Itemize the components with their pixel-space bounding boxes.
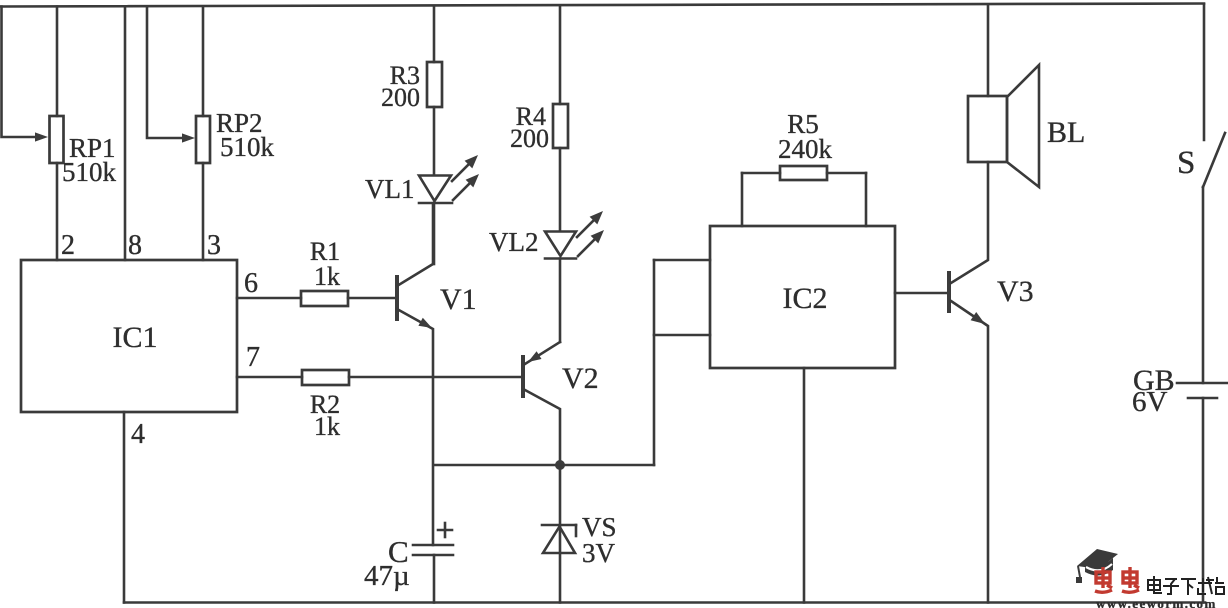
svg-text:2: 2 bbox=[61, 230, 75, 261]
wire top rail to R4 bbox=[559, 7, 562, 105]
VL1 arrow 1 bbox=[452, 161, 472, 181]
V3 collector bbox=[951, 162, 988, 283]
svg-text:47µ: 47µ bbox=[364, 560, 410, 592]
watermark black text dianzi xiazaizhan bbox=[1148, 576, 1224, 595]
RP2 wiper arrowhead bbox=[182, 133, 195, 142]
svg-text:6V: 6V bbox=[1132, 386, 1168, 418]
svg-text:240k: 240k bbox=[778, 134, 833, 164]
speaker BL box bbox=[968, 96, 1007, 162]
IC1 box bbox=[21, 260, 237, 412]
wire switch to battery bbox=[1202, 187, 1205, 383]
R5 wires bbox=[742, 172, 780, 175]
svg-text:V3: V3 bbox=[997, 275, 1034, 308]
wire IC2 to V3 base bbox=[895, 292, 948, 295]
wire RP2 to IC1 pin 3 bbox=[202, 163, 205, 260]
wire top rail to switch bbox=[1203, 4, 1206, 140]
svg-text:200: 200 bbox=[510, 124, 549, 153]
wire IC1 pin 6 to R1 bbox=[237, 297, 301, 300]
svg-text:200: 200 bbox=[381, 83, 420, 112]
top power rail bbox=[0, 4, 1204, 7]
resistor R1 body bbox=[301, 291, 348, 306]
transistor V1 base bar bbox=[395, 275, 399, 321]
wire junction to zener and rail bbox=[559, 465, 562, 603]
wire top rail to RP1 bbox=[56, 7, 59, 117]
wire RP1 to IC1 pin 2 bbox=[56, 163, 59, 260]
V2 emitter (top, arrow into bar) bbox=[525, 342, 560, 364]
zener VS wing bbox=[575, 525, 578, 536]
wire R4 to VL2 bbox=[559, 148, 562, 231]
wire top rail to IC1 pin 8 bbox=[124, 7, 127, 261]
VL2 arrow 2 bbox=[578, 236, 598, 256]
potentiometer RP2 body bbox=[196, 116, 210, 163]
svg-text:IC1: IC1 bbox=[113, 321, 158, 354]
IC2 box bbox=[710, 226, 895, 368]
V3 emitter bbox=[951, 301, 988, 603]
wire top rail to speaker bbox=[987, 5, 990, 96]
VL1 arrow 2 bbox=[453, 180, 473, 200]
svg-text:1k: 1k bbox=[314, 412, 340, 441]
svg-text:3: 3 bbox=[207, 230, 221, 261]
V1 emitter bbox=[397, 309, 433, 545]
svg-text:www.eeworm.com: www.eeworm.com bbox=[1096, 596, 1217, 608]
svg-text:V1: V1 bbox=[440, 283, 477, 316]
transistor V3 base bar bbox=[947, 271, 951, 313]
svg-text:VL1: VL1 bbox=[365, 174, 415, 204]
transistor V2 base bar bbox=[521, 355, 525, 398]
battery GB negative plate bbox=[1188, 397, 1217, 400]
V1 emitter arrowhead bbox=[418, 318, 432, 328]
battery GB positive plate bbox=[1177, 382, 1228, 385]
resistor R2 body bbox=[302, 370, 349, 385]
V2 collector bbox=[525, 390, 560, 465]
switch S lever bbox=[1203, 133, 1225, 187]
bottom rail bbox=[124, 601, 1205, 604]
wire IC1 pin 7 to R2 bbox=[237, 376, 302, 379]
wire battery to bottom rail bbox=[1202, 398, 1205, 603]
svg-text:VL2: VL2 bbox=[489, 227, 539, 257]
wire C to bottom rail bbox=[433, 555, 436, 603]
svg-text:S: S bbox=[1177, 145, 1195, 181]
svg-text:510k: 510k bbox=[220, 132, 275, 162]
svg-text:BL: BL bbox=[1047, 116, 1085, 149]
wire VL2 to V2 emitter bbox=[559, 259, 562, 343]
potentiometer RP1 body bbox=[50, 116, 64, 163]
V3 emitter arrowhead bbox=[971, 312, 985, 324]
wire IC2 bottom to rail bbox=[803, 368, 806, 603]
svg-text:3V: 3V bbox=[582, 538, 616, 568]
IC2 stub upper bbox=[654, 259, 710, 262]
V2 emitter arrowhead bbox=[528, 351, 542, 362]
wire RP2 wiper return bbox=[147, 7, 183, 139]
R5 loop right vertical bbox=[865, 173, 868, 226]
wire IC1 pin 4 to bottom rail bbox=[123, 412, 126, 603]
junction node bbox=[555, 460, 565, 470]
zener VS bar bbox=[542, 524, 576, 527]
svg-text:IC2: IC2 bbox=[783, 282, 828, 315]
wire junction up to IC2 stubs bbox=[653, 260, 656, 465]
svg-text:8: 8 bbox=[128, 230, 142, 261]
IC2 stub lower bbox=[654, 334, 710, 337]
svg-text:1k: 1k bbox=[314, 262, 340, 291]
V1 collector bbox=[397, 204, 433, 286]
resistor R4 body bbox=[553, 104, 568, 148]
zener VS triangle bbox=[543, 527, 575, 554]
capacitor C bottom plate bbox=[413, 554, 453, 557]
RP1 wiper arrowhead bbox=[35, 132, 48, 141]
svg-text:510k: 510k bbox=[62, 157, 117, 187]
svg-text:7: 7 bbox=[246, 342, 260, 373]
svg-text:V2: V2 bbox=[562, 362, 599, 395]
resistor R5 body bbox=[780, 166, 827, 180]
speaker BL cone bbox=[1007, 65, 1039, 187]
LED VL2 bbox=[545, 232, 576, 257]
VL2 arrow 1 bbox=[577, 217, 597, 237]
wire top rail to RP2 bbox=[202, 7, 205, 117]
svg-text:6: 6 bbox=[244, 268, 258, 299]
R5 loop left vertical bbox=[741, 173, 744, 226]
wire R2 to V2 base bbox=[349, 376, 522, 379]
resistor R3 body bbox=[427, 62, 442, 107]
wire top rail to R3 bbox=[433, 7, 436, 63]
wire left border RP1 wiper return bbox=[2, 7, 37, 138]
wire junction horizontal bbox=[434, 464, 654, 467]
watermark red chongchong glyphs bbox=[1095, 567, 1139, 592]
capacitor C polarity plus bbox=[438, 529, 452, 532]
LED VL1 bbox=[419, 176, 451, 202]
wire R1 to V1 base bbox=[348, 297, 396, 300]
wire VL1 to V1 collector bbox=[433, 203, 436, 264]
wire R3 to VL1 bbox=[433, 107, 436, 175]
watermark graduation cap bbox=[1076, 549, 1118, 583]
capacitor C top plate bbox=[413, 544, 453, 547]
svg-text:4: 4 bbox=[131, 419, 145, 450]
